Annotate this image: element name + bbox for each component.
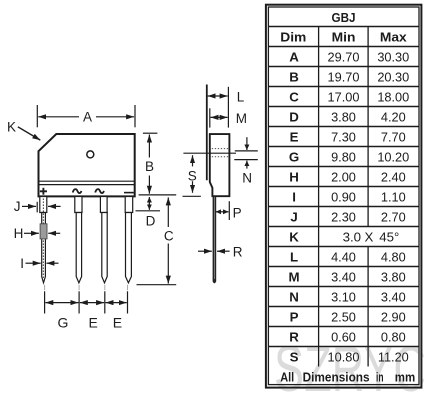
svg-text:Min: Min (332, 30, 356, 45)
pin 4 lead (126, 213, 132, 283)
dimension E label 1 (89, 315, 98, 331)
svg-text:R: R (233, 244, 243, 259)
svg-text:K: K (7, 119, 16, 134)
svg-text:2.30: 2.30 (331, 209, 356, 224)
svg-text:3.10: 3.10 (331, 289, 356, 304)
plus terminal symbol (40, 188, 47, 195)
dimension M arrows (211, 116, 228, 118)
dimension P arrows (216, 211, 229, 213)
mounting hole (87, 151, 94, 158)
svg-text:C: C (164, 228, 174, 243)
svg-text:P: P (233, 205, 242, 220)
svg-text:I: I (20, 256, 24, 271)
dimension R arrows (198, 250, 230, 252)
pin 3 shoulder (100, 197, 107, 213)
terminal strip double line (39, 181, 135, 184)
svg-text:D: D (289, 109, 299, 124)
svg-text:B: B (145, 159, 154, 174)
svg-text:3.0X45°: 3.0X45° (343, 229, 400, 244)
dimension S label (188, 168, 197, 183)
side view heatsink tab edge (206, 85, 208, 181)
dimension S arrows (192, 155, 194, 193)
dimension L extension (227, 87, 229, 128)
svg-text:H: H (289, 169, 299, 184)
table column dividers (319, 27, 369, 367)
svg-text:M: M (236, 111, 247, 126)
dimension table inner border (268, 7, 419, 385)
table row G (289, 149, 409, 164)
svg-text:10.20: 10.20 (377, 149, 409, 164)
dimension B arrows (148, 135, 150, 194)
svg-text:3.80: 3.80 (331, 109, 356, 124)
dimension N label (242, 171, 252, 186)
dimension table outer border (266, 5, 422, 388)
chamfer label K (7, 119, 16, 134)
dimension P extension (228, 201, 230, 220)
front view package body (39, 134, 135, 196)
svg-text:G: G (289, 149, 299, 164)
pin pitch extension lines (45, 285, 128, 314)
dimension B top extension (143, 132, 158, 134)
svg-text:18.00: 18.00 (377, 89, 409, 104)
svg-text:J: J (14, 199, 21, 214)
svg-text:B: B (289, 69, 299, 84)
dimension N lines (234, 151, 257, 160)
dimension A extension lines (37, 105, 135, 127)
dimension J arrows (22, 205, 61, 207)
svg-text:1.10: 1.10 (381, 189, 406, 204)
pin 4 shoulder (125, 197, 133, 213)
svg-text:E: E (89, 315, 98, 331)
dimension L arrows (208, 95, 228, 97)
svg-text:L: L (237, 90, 245, 105)
svg-text:I: I (292, 189, 296, 204)
svg-text:J: J (290, 209, 297, 224)
dimension C arrows (167, 197, 169, 283)
table row J (290, 209, 405, 224)
dimension G label (58, 315, 69, 331)
svg-text:4.40: 4.40 (331, 249, 356, 264)
K leader arrow (18, 127, 41, 140)
svg-text:P: P (290, 309, 299, 324)
table row M (289, 269, 406, 284)
body bottom extension line (139, 194, 177, 196)
dimension L label (237, 90, 245, 105)
svg-text:7.30: 7.30 (331, 129, 356, 144)
svg-text:S: S (188, 168, 197, 183)
svg-text:M: M (289, 269, 300, 284)
dimension G arrows (45, 302, 78, 304)
svg-text:30.30: 30.30 (377, 49, 409, 64)
dimension A label (83, 110, 92, 125)
pin 1 crimp bulge H feature (40, 224, 47, 239)
side view pin lead (213, 196, 217, 283)
table row P (290, 309, 406, 324)
svg-text:2.90: 2.90 (381, 309, 406, 324)
table row R (289, 329, 405, 344)
svg-text:0.90: 0.90 (331, 189, 356, 204)
dimension I arrows (26, 262, 59, 264)
table row S (290, 349, 409, 364)
dimension D label (146, 214, 156, 229)
table row H (289, 169, 405, 184)
dimension R label (233, 244, 243, 259)
pin 3 lead (102, 213, 107, 283)
table header GBJ (331, 11, 355, 26)
svg-text:K: K (289, 229, 299, 244)
ac terminal symbol 1 (73, 189, 82, 193)
svg-text:2.70: 2.70 (381, 209, 406, 224)
svg-text:9.80: 9.80 (331, 149, 356, 164)
svg-text:A: A (83, 110, 92, 125)
dimension D arrows (148, 197, 150, 210)
pin 1 shoulder (40, 197, 47, 213)
ac terminal symbol 2 (95, 189, 104, 193)
svg-text:N: N (242, 171, 252, 186)
table row B (289, 69, 409, 84)
svg-text:D: D (146, 214, 156, 229)
svg-text:4.80: 4.80 (381, 249, 406, 264)
svg-text:3.40: 3.40 (381, 289, 406, 304)
dimension N arrows (246, 137, 248, 168)
S top extension long line (183, 152, 236, 154)
dimension H arrows (24, 232, 60, 234)
svg-text:E: E (290, 129, 299, 144)
dimension J tick (36, 202, 38, 213)
dimension J label (14, 199, 21, 214)
svg-text:29.70: 29.70 (328, 49, 360, 64)
svg-text:L: L (290, 249, 298, 264)
dimension C label (164, 228, 174, 243)
side view body (210, 134, 230, 196)
pin 1 serrated texture dashed line (42, 199, 44, 279)
table row lines (268, 27, 419, 347)
table row L (290, 249, 406, 264)
table row K (289, 229, 399, 244)
svg-text:E: E (113, 315, 122, 331)
table header Dim Min Max (280, 30, 407, 45)
table row I (292, 189, 405, 204)
dimension H label (14, 226, 24, 241)
svg-text:A: A (289, 49, 299, 64)
svg-text:2.00: 2.00 (331, 169, 356, 184)
svg-text:SZRYC: SZRYC (274, 332, 426, 400)
svg-text:20.30: 20.30 (377, 69, 409, 84)
table row C (289, 89, 409, 104)
dimension D extension (136, 210, 161, 212)
svg-text:7.70: 7.70 (381, 129, 406, 144)
svg-text:H: H (14, 226, 24, 241)
svg-text:GBJ: GBJ (331, 11, 355, 26)
dimension P label (233, 205, 242, 220)
table footer All Dimensions in mm (280, 369, 415, 384)
table row D (289, 109, 405, 124)
svg-text:Dim: Dim (280, 30, 306, 45)
minus terminal symbol (124, 192, 134, 194)
svg-text:3.40: 3.40 (331, 269, 356, 284)
svg-text:Max: Max (380, 30, 407, 45)
pin 2 lead (76, 213, 81, 283)
dimension A arrows (38, 116, 134, 118)
dimension M extension tick (209, 108, 211, 127)
dimension M label (236, 111, 247, 126)
pin 2 shoulder (75, 197, 82, 213)
svg-text:2.50: 2.50 (331, 309, 356, 324)
svg-text:N: N (289, 289, 299, 304)
dimension E arrows 1 (80, 302, 104, 304)
svg-text:19.70: 19.70 (328, 69, 360, 84)
dimension B label (145, 159, 154, 174)
svg-text:G: G (58, 315, 69, 331)
svg-text:4.20: 4.20 (381, 109, 406, 124)
svg-text:C: C (289, 89, 299, 104)
svg-text:2.40: 2.40 (381, 169, 406, 184)
svg-text:17.00: 17.00 (328, 89, 360, 104)
dimension E label 2 (113, 315, 122, 331)
S bottom extension (183, 195, 201, 197)
dimension I label (20, 256, 24, 271)
table row E (290, 129, 406, 144)
svg-text:3.80: 3.80 (381, 269, 406, 284)
table row A (289, 49, 409, 64)
pin tip extension line (137, 284, 177, 286)
pin 1 lead (42, 213, 46, 283)
table row N (289, 289, 405, 304)
side view slot dotted lines (212, 149, 229, 157)
dimension E arrows 2 (106, 302, 127, 304)
watermark (274, 332, 426, 400)
